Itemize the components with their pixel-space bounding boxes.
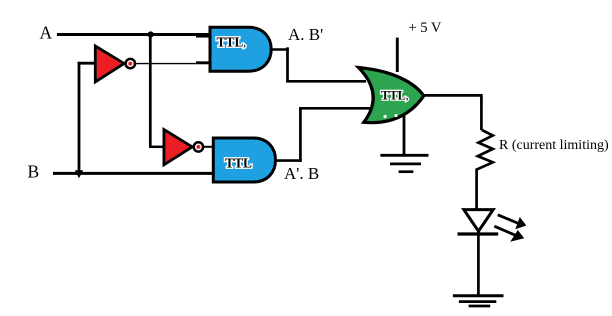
svg-text:R (current limiting): R (current limiting) — [499, 138, 609, 153]
LED light arrow 2 — [494, 226, 524, 242]
svg-text:A. B': A. B' — [288, 25, 323, 44]
wire OR output down to resistor — [480, 94, 483, 130]
svg-text:+ 5 V: + 5 V — [409, 20, 442, 36]
wire AND2 output up — [299, 108, 302, 162]
wire resistor to LED — [475, 169, 478, 211]
NOT gate G2 bubble — [194, 142, 203, 151]
node A label — [40, 23, 53, 43]
junction dot on A wire — [148, 31, 154, 37]
wire LED to ground — [477, 231, 480, 296]
LED D1 cathode bar — [458, 232, 499, 235]
label A. B' — [288, 25, 323, 44]
node B label — [28, 162, 40, 182]
NOT gate G2 triangle — [164, 130, 192, 165]
AND gate U2 body — [213, 138, 275, 182]
AND gate U1 TTL label — [217, 35, 246, 50]
wire +5V supply down — [396, 38, 399, 72]
wire NOT1 input horizontal — [78, 62, 97, 65]
NOT gate G1 triangle — [95, 46, 124, 81]
resistor R zigzag — [476, 130, 493, 170]
wire B input to AND2 — [53, 172, 214, 175]
wire NOT1 output to AND1 — [136, 62, 210, 65]
wire NOT2 output to AND2 — [204, 146, 214, 148]
OR gate U3 body — [359, 68, 424, 123]
wire AND2 output — [275, 159, 302, 162]
NOT gate G1 bubble — [126, 59, 135, 68]
svg-text:A'. B: A'. B — [284, 164, 319, 183]
wire OR ground down — [403, 116, 406, 155]
label A'. B — [284, 164, 319, 183]
LED D1 triangle — [464, 210, 493, 232]
AND gate U2 TTL label — [225, 156, 252, 171]
wire AND1 output — [271, 48, 289, 51]
+5V label — [409, 20, 442, 36]
wire junction A down to NOT2 input — [149, 35, 152, 147]
label R (current limiting) — [499, 138, 609, 153]
AND gate U1 input stubs — [196, 35, 210, 38]
svg-text:B: B — [28, 162, 40, 182]
wire B vertical branch to NOT1 — [78, 62, 81, 171]
svg-text:TTL: TTL — [225, 156, 252, 171]
svg-text:A: A — [40, 23, 53, 43]
wire AND1 output down — [286, 47, 289, 81]
wire to OR bottom input — [299, 107, 373, 110]
wire OR output — [424, 94, 483, 97]
junction arrowhead on B wire — [75, 170, 83, 178]
wire NOT2 input horizontal — [149, 146, 165, 149]
ground symbol under OR gate — [380, 155, 428, 171]
wire to OR top input — [286, 80, 366, 83]
OR gate U3 TTL label — [381, 89, 408, 103]
svg-text:TTL,: TTL, — [217, 35, 246, 50]
ground symbol bottom right — [453, 296, 504, 306]
wire A input to AND1 — [57, 33, 210, 36]
LED light arrow 1 — [498, 215, 527, 229]
svg-text:TTL,: TTL, — [381, 89, 408, 103]
AND gate U1 body — [210, 27, 271, 71]
